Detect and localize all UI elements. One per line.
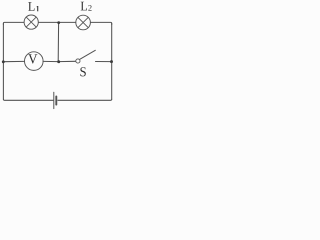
wire top-right segment [90, 22, 111, 24]
label V of voltmeter [28, 54, 37, 63]
node C (middle junction at switch) [57, 60, 60, 63]
wire right side [111, 24, 113, 100]
label L1 "L" [28, 2, 34, 11]
lamp L1 [24, 15, 38, 29]
wire bottom-right segment [58, 99, 112, 100]
wire voltmeter right [43, 60, 58, 62]
lamp L2 [76, 15, 91, 30]
node B (top junction between lamps) [57, 21, 60, 24]
label L2 subscript "2" [88, 5, 91, 10]
label S of switch [80, 67, 85, 76]
wire bottom-left segment [3, 99, 53, 100]
label L1 subscript "1" [37, 6, 38, 11]
node D (right junction) [110, 60, 113, 63]
node A (left junction) [2, 60, 5, 63]
battery [54, 92, 57, 108]
wire voltmeter left [3, 60, 24, 62]
wire top-left segment [3, 22, 24, 24]
wire top-middle segment [39, 21, 76, 23]
wire left side [2, 24, 4, 100]
wire middle vertical (node between lamps down to switch) [57, 23, 59, 62]
label L2 "L" [81, 2, 87, 11]
switch S [58, 50, 111, 63]
voltmeter V [25, 52, 44, 71]
